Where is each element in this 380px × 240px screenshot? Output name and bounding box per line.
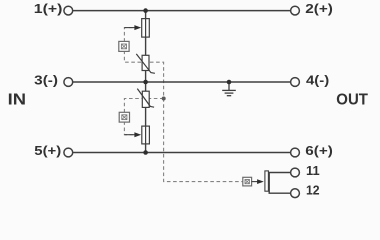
svg-text:4(-): 4(-) (306, 74, 329, 88)
svg-text:3(-): 3(-) (34, 74, 58, 88)
terminal circle 6 (291, 148, 300, 157)
wire line 1 to 2 (73, 10, 291, 12)
svg-text:11: 11 (306, 164, 320, 178)
svg-text:OUT: OUT (336, 91, 368, 108)
defect indicator K1 (119, 41, 129, 51)
ground connection stub (228, 82, 230, 90)
defect indicator K2 (119, 112, 129, 122)
terminal circle 5 (64, 148, 73, 157)
wire protection column vertical (145, 11, 147, 153)
junction node line1/column (143, 8, 148, 13)
thermal disconnect F1 body (142, 19, 150, 37)
svg-text:2(+): 2(+) (305, 2, 333, 16)
ground symbol (222, 90, 236, 95)
disconnect actuation arrow F2 (124, 132, 141, 137)
terminal circle 12 (291, 189, 300, 198)
junction node ground/line2 (227, 80, 232, 85)
terminal circle 11 (291, 168, 300, 177)
svg-text:1(+): 1(+) (34, 2, 63, 16)
thermal disconnect F2 body (142, 126, 150, 144)
terminal circle 2 (291, 6, 300, 15)
junction node line3/column (143, 150, 148, 155)
junction node line2/column (143, 80, 148, 85)
remote contact leads to terminals 11 and 12 (269, 173, 290, 194)
dashed signal link path lower (node to indicator K2 and arrow) (124, 99, 163, 135)
dashed signal link path upper (indicator K1 to remote line) (124, 28, 242, 182)
wire line 5 to 6 (73, 152, 291, 154)
dashed node junction dot (162, 97, 166, 101)
svg-text:IN: IN (8, 91, 26, 108)
terminal circle 3 (64, 78, 73, 87)
svg-text:6(+): 6(+) (305, 144, 333, 158)
terminal circle 4 (291, 78, 300, 87)
varistor U1 (136, 54, 155, 73)
svg-text:12: 12 (306, 184, 320, 198)
contact actuation arrow (252, 179, 264, 184)
remote contact movable bridge (265, 171, 269, 191)
varistor U2 (137, 89, 154, 108)
svg-text:5(+): 5(+) (34, 144, 61, 158)
terminal circle 1 (64, 6, 73, 15)
defect indicator K3 (243, 177, 252, 186)
wire line 3 to 4 (73, 81, 291, 83)
disconnect actuation arrow F1 (124, 25, 141, 30)
